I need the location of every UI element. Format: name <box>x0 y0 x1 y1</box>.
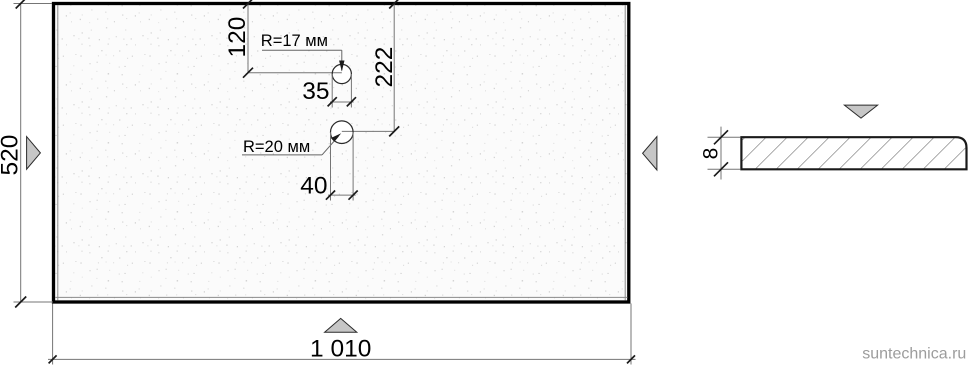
dimension 520 line <box>20 3 22 303</box>
dimension 1010 extension line right <box>630 304 632 365</box>
dimension 222 tick top <box>389 0 399 9</box>
panel inner edge line right <box>624 5 626 301</box>
arrow marker left (pointing right) <box>27 137 41 170</box>
dimension 35 tick left <box>328 97 337 106</box>
svg-text:520: 520 <box>0 135 23 176</box>
dimension 40 extension line left <box>330 132 332 200</box>
dimension 40 extension line right <box>352 132 354 200</box>
dimension 1010 extension line left <box>52 304 54 365</box>
leader R=17 arrowhead <box>339 61 344 72</box>
dimension 8 tick top <box>714 130 728 144</box>
svg-text:222: 222 <box>371 47 398 88</box>
dimension 8 extension line top <box>708 136 741 138</box>
arrow marker bottom (pointing up) <box>325 318 357 332</box>
dimension 120 tick top <box>243 0 253 9</box>
hole 1 circle R17 <box>332 64 351 83</box>
dimension 35 extension line right <box>350 74 352 108</box>
panel inner edge line left <box>57 5 59 301</box>
side profile arrow marker (pointing down) <box>844 105 877 118</box>
leader R=20 underline <box>242 154 322 156</box>
leader R=20 arrowhead <box>331 133 341 142</box>
dimension 222 line vertical <box>393 3 395 132</box>
dimension 8 tick bottom <box>714 162 728 176</box>
dimension 1010 tick right <box>627 355 635 363</box>
dimension 222 line horizontal from hole 2 center <box>342 130 394 132</box>
hole 1 white backing <box>332 64 351 83</box>
dimension 120 line horizontal to hole center <box>248 72 342 74</box>
dimension 120 tick bottom <box>243 68 253 78</box>
panel top view body <box>54 4 629 303</box>
dimension 520 tick top <box>16 0 26 9</box>
dimension 1010 line <box>48 358 636 360</box>
hole 2 white backing <box>331 121 354 144</box>
leader R=17 underline <box>262 49 342 51</box>
dimension 40 tick right <box>349 191 358 200</box>
svg-text:8: 8 <box>700 148 723 160</box>
svg-text:120: 120 <box>224 17 251 58</box>
svg-text:R=20 мм: R=20 мм <box>243 138 310 156</box>
dimension 35 extension line left <box>331 74 333 108</box>
arrow marker right (pointing left) <box>643 137 657 170</box>
svg-text:suntechnica.ru: suntechnica.ru <box>862 346 966 363</box>
dimension 35 line <box>330 101 354 103</box>
side profile bar with hatch <box>741 137 966 169</box>
dimension 35 tick right <box>347 97 356 106</box>
dimension 8 extension line bottom <box>708 168 741 170</box>
leader R=17 vertical segment <box>341 50 343 70</box>
svg-text:35: 35 <box>302 78 329 105</box>
panel inner edge line bottom <box>55 296 627 298</box>
dimension 520 tick bottom <box>15 297 26 308</box>
dimension 120 line vertical <box>247 3 249 73</box>
dimension 520 extension line bottom <box>14 301 54 303</box>
dimension 8 line <box>720 127 722 180</box>
dimension 222 tick bottom <box>389 126 399 136</box>
dimension 40 line <box>328 194 356 196</box>
svg-text:40: 40 <box>300 173 327 200</box>
svg-text:R=17 мм: R=17 мм <box>261 32 328 50</box>
dimension 40 tick left <box>326 191 335 200</box>
svg-text:1 010: 1 010 <box>310 336 371 363</box>
leader R=20 diagonal segment <box>322 136 339 155</box>
dimension 520 extension line top <box>14 3 53 5</box>
dimension 1010 tick left <box>49 355 57 363</box>
hole 2 circle R20 <box>331 121 354 144</box>
